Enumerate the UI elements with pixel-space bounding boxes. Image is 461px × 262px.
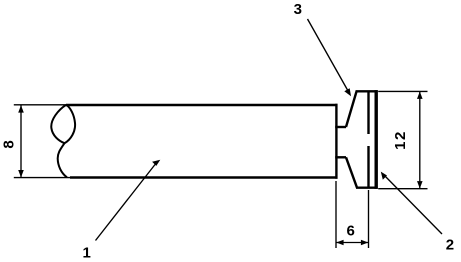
svg-text:2: 2 bbox=[446, 236, 454, 253]
svg-text:1: 1 bbox=[83, 245, 91, 262]
svg-text:8: 8 bbox=[1, 140, 18, 148]
svg-text:6: 6 bbox=[347, 222, 355, 239]
svg-text:3: 3 bbox=[294, 1, 302, 18]
svg-text:12: 12 bbox=[392, 130, 409, 150]
